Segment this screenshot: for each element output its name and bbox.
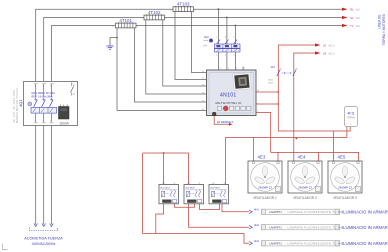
ground [106, 46, 113, 49]
wire 4T103 right drop to 4N101 pin1 [192, 12, 207, 73]
wire vent bus A [278, 126, 350, 132]
svg-text:2: 2 [220, 68, 221, 70]
fuse terminal 4T102 [141, 10, 168, 20]
wire 4T103 left drop to 4N101 pin2 [175, 12, 207, 80]
connector acometida L2 [42, 223, 46, 227]
svg-text:4H3: 4H3 [254, 239, 259, 243]
bracket acometida [30, 228, 58, 231]
svg-text:4x1.5: 4x1.5 [329, 44, 336, 47]
svg-text:ETHERNET: ETHERNET [217, 120, 233, 124]
fuse terminal 4T101 [112, 18, 139, 28]
wire 4Q1 to acometida L3 [51, 126, 53, 224]
wire 4T102 left drop to 4N101 pin4 [146, 20, 207, 94]
arrow L3 out [342, 24, 360, 28]
svg-text:400VAC/50Hz: 400VAC/50Hz [32, 242, 56, 246]
junction 4F1 leg pin2 [278, 103, 280, 105]
svg-text:8: 8 [244, 68, 245, 70]
svg-text:5: 5 [233, 37, 235, 39]
svg-text:4K3 RELE: 4K3 RELE [210, 187, 220, 189]
svg-text:LAMP8T1: LAMP8T1 [269, 210, 282, 214]
svg-text:ILUMINACIO IN ARMARI: ILUMINACIO IN ARMARI [342, 210, 388, 215]
svg-text:2: 2 [166, 18, 168, 20]
wire 4N101 right pin 2 [256, 103, 278, 105]
wire relay1 top drop [163, 153, 165, 185]
svg-text:4Q2: 4Q2 [204, 36, 209, 39]
wire 4T102 right drop to 4N101 pin3 [163, 20, 207, 86]
wire lamp3 lead [156, 204, 164, 234]
svg-text:4K1 RELE: 4K1 RELE [160, 187, 170, 189]
wire 4N101 pin to vent bus C [256, 113, 271, 153]
wire lamp2 lead [189, 204, 249, 227]
arrow ethernet [229, 123, 233, 126]
svg-text:TL: TL [350, 24, 354, 28]
junction 4F1 leg pin13 [278, 91, 280, 93]
wire ground link [110, 38, 117, 46]
wire L1 phase bus [36, 9, 342, 81]
svg-text:15: 15 [202, 100, 204, 102]
circuit breaker 4Q1 [24, 82, 78, 126]
wire 4Q1 to acometida L1 [35, 126, 37, 224]
wire relay top bus [143, 152, 189, 154]
svg-text:4T103: 4T103 [177, 2, 190, 7]
svg-text:4x6: 4x6 [356, 8, 361, 12]
wire drop ventilator1 left [253, 138, 255, 162]
svg-text:4T102: 4T102 [148, 10, 161, 15]
svg-text:METEOPHELIO: METEOPHELIO [215, 101, 241, 105]
svg-text:11: 11 [174, 183, 176, 185]
contact 4F1 [268, 65, 298, 84]
svg-text:1600A: 1600A [59, 121, 69, 125]
svg-text:11: 11 [199, 183, 201, 185]
svg-text:A1: A1 [163, 182, 165, 185]
svg-text:11: 11 [224, 183, 226, 185]
junction 4Q2 tap L1 [218, 8, 220, 10]
svg-text:4F1: 4F1 [271, 65, 276, 69]
svg-text:4E4: 4E4 [298, 155, 306, 160]
svg-text:13: 13 [257, 90, 259, 92]
svg-text:A1: A1 [213, 182, 215, 185]
svg-text:SL: SL [350, 16, 354, 20]
wire 4N101 right pin 13 [256, 91, 278, 93]
svg-text:13: 13 [202, 84, 204, 86]
wire 4F1 left leg to arrow 22 and vent bus A [278, 45, 315, 131]
thermostat 4E11 [345, 107, 358, 127]
svg-text:13: 13 [73, 85, 75, 87]
ventilator 4E5 [328, 155, 362, 200]
wire relay2 top drop [188, 153, 190, 185]
svg-text:VENTILADOR 2: VENTILADOR 2 [293, 196, 317, 200]
fuse terminal 4T103 [170, 2, 197, 12]
wire relay1-relay2 link [175, 204, 195, 208]
arrow 22 out [315, 43, 335, 47]
svg-text:4x6: 4x6 [356, 16, 361, 20]
wire vent bus C [271, 152, 359, 161]
svg-text:11: 11 [202, 71, 204, 73]
svg-text:3: 3 [225, 37, 227, 39]
svg-text:4E3: 4E3 [258, 155, 266, 160]
svg-text:RL: RL [350, 8, 354, 12]
svg-text:6: 6 [236, 68, 237, 70]
svg-text:TERMO: TERMO [347, 118, 356, 120]
svg-text:2400BP 25: 2400BP 25 [298, 186, 312, 190]
frame corner mark bottom-left [3, 244, 8, 250]
svg-text:ILUMINACIO IN ARMARI: ILUMINACIO IN ARMARI [342, 241, 388, 246]
svg-text:LAMP8T1: LAMP8T1 [269, 226, 282, 230]
svg-text:4H1: 4H1 [254, 208, 259, 212]
arrow 24 out [315, 51, 335, 55]
wire 4Q2 pole feeds [218, 9, 235, 44]
connector acometida L3 [50, 223, 54, 227]
svg-text:1: 1 [112, 26, 114, 28]
svg-text:4K2 RELE: 4K2 RELE [185, 187, 195, 189]
junction 4Q2 tap L2 [226, 17, 228, 19]
svg-text:2: 2 [257, 103, 258, 105]
svg-text:24: 24 [323, 51, 327, 55]
svg-text:2: 2 [137, 26, 139, 28]
connector acometida L1 [34, 223, 38, 227]
wire lamp1 lead [222, 204, 249, 212]
junction 4Q2 tap L3 [235, 25, 237, 27]
svg-text:12: 12 [202, 78, 204, 80]
relay 4K2 [184, 182, 204, 204]
ventilator 4E3 [248, 155, 282, 200]
svg-text:4E5: 4E5 [338, 155, 346, 160]
svg-text:LAMP8T1: LAMP8T1 [269, 242, 282, 246]
svg-text:REG. 0.8-1xIn 36kA: REG. 0.8-1xIn 36kA [32, 95, 54, 98]
arrow L1 out [342, 8, 360, 12]
arrow L2 out [342, 16, 360, 20]
wire L2 phase bus [44, 18, 342, 82]
svg-text:16: 16 [202, 109, 204, 111]
wire ethernet stub [214, 116, 229, 125]
net label LINEA DE TIERRA Y MOTORES (vertical) [378, 14, 387, 45]
junction vent bus B [296, 138, 298, 140]
svg-text:4F11: 4F11 [347, 112, 354, 116]
wire 4F1 right leg to arrow 24 and vent bus B [294, 53, 316, 138]
wire relay feed vertical [142, 153, 144, 234]
svg-text:MANDO MOTOR 230VAC: MANDO MOTOR 230VAC [16, 87, 19, 123]
ventilator 4E4 [288, 155, 322, 200]
relay 4K1 [159, 182, 179, 204]
lamp 4H3 row [249, 239, 388, 246]
svg-text:4x1.5: 4x1.5 [329, 52, 336, 55]
svg-text:A1: A1 [188, 182, 190, 185]
wire relay2-relay3 link [200, 204, 220, 210]
wire L3 phase bus [52, 26, 343, 82]
svg-text:1: 1 [170, 10, 172, 12]
wire 4Q2 to 4N101 top pins [218, 52, 235, 70]
svg-text:LINEA DE: LINEA DE [378, 15, 382, 29]
lamp 4H2 row [249, 223, 388, 230]
pin stub 4N101 top pin 13 [242, 67, 244, 71]
svg-text:4: 4 [228, 68, 229, 70]
wire drop ventilator1 right [277, 152, 279, 161]
svg-text:ACOMETIDA FUERZA: ACOMETIDA FUERZA [24, 237, 63, 241]
junction relay1 feed [163, 152, 165, 154]
svg-text:1: 1 [216, 37, 218, 39]
svg-text:4N101: 4N101 [220, 92, 236, 98]
svg-text:2: 2 [216, 55, 218, 57]
svg-text:2400BP 25: 2400BP 25 [258, 186, 272, 190]
wire drop ventilator2 right [318, 152, 320, 161]
svg-text:2400BP 25: 2400BP 25 [338, 186, 352, 190]
motor breaker 4Q2 [203, 36, 240, 57]
relay 4K3 [209, 182, 229, 204]
wire 4Q1 to acometida L2 [43, 126, 45, 224]
svg-text:14: 14 [202, 92, 204, 94]
wire 4T101 left drop to 4N101 pin6 [117, 28, 207, 111]
svg-text:LAMPARA FLUORESCENTE,TL 9W: LAMPARA FLUORESCENTE,TL 9W [288, 242, 343, 246]
svg-text:4T101: 4T101 [119, 18, 132, 23]
svg-text:1: 1 [141, 18, 143, 20]
svg-text:22: 22 [323, 43, 327, 47]
svg-text:4: 4 [225, 55, 227, 57]
svg-text:VENTILADOR 1: VENTILADOR 1 [253, 196, 277, 200]
svg-text:14A 2: 14A 2 [268, 81, 274, 84]
svg-text:INT.AUT. 4P 160A 36kA: INT.AUT. 4P 160A 36kA [13, 89, 16, 123]
wire drop ventilator2 left [293, 138, 295, 162]
svg-text:23: 23 [296, 69, 298, 71]
svg-text:2: 2 [195, 10, 197, 12]
controller 4N101 [202, 68, 259, 116]
junction ground link [116, 37, 118, 39]
wire vent bus B [226, 126, 347, 138]
svg-text:TIERRA Y MOTORES: TIERRA Y MOTORES [382, 14, 386, 45]
svg-text:13: 13 [280, 69, 282, 71]
wire 4T101 right drop to 4N101 pin5 [135, 28, 207, 102]
svg-text:VENTILADOR 3: VENTILADOR 3 [333, 196, 357, 200]
svg-text:LAMPARA FLUORESCENTE,TL 9W: LAMPARA FLUORESCENTE,TL 9W [288, 225, 343, 229]
svg-text:13A 2: 13A 2 [268, 79, 274, 82]
svg-text:6: 6 [233, 55, 235, 57]
svg-text:ILUMINACIO IN ARMARI: ILUMINACIO IN ARMARI [342, 225, 388, 230]
lamp 4H1 row [249, 208, 388, 215]
svg-text:14: 14 [73, 94, 75, 96]
wire lamp3 bottom run [143, 234, 250, 244]
wire drop ventilator3 left [333, 131, 335, 161]
wire relay3 top feed [225, 138, 227, 185]
svg-text:4x6: 4x6 [356, 24, 361, 28]
svg-text:16A: 16A [203, 45, 208, 48]
svg-text:4H2: 4H2 [254, 223, 259, 227]
svg-text:LAMPARA FLUORESCENTE,TL 9W: LAMPARA FLUORESCENTE,TL 9W [288, 210, 343, 214]
